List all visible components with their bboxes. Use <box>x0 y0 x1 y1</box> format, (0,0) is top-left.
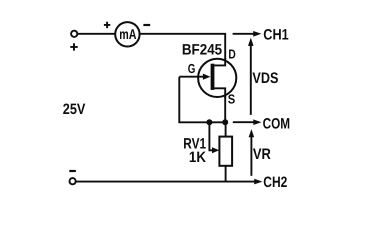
svg-text:VR: VR <box>253 146 271 163</box>
measurement arrow VDS <box>248 38 254 115</box>
potentiometer RV1 body <box>219 137 232 166</box>
svg-text:BF245: BF245 <box>182 42 222 59</box>
wire resistor top lead <box>225 122 227 137</box>
svg-text:CH1: CH1 <box>263 26 288 43</box>
wire gate feedback to COM rail <box>179 77 225 123</box>
wire terminal to ammeter <box>78 33 115 35</box>
junction dot (wiper tap node) <box>206 119 212 125</box>
ammeter M1 <box>115 22 139 46</box>
svg-text:1K: 1K <box>189 149 206 166</box>
svg-text:CH2: CH2 <box>263 174 287 191</box>
wire ammeter to drain (top rail and corner down) <box>140 34 225 64</box>
label + (ammeter polarity) <box>104 22 110 28</box>
svg-text:mA: mA <box>119 27 136 43</box>
svg-text:D: D <box>228 47 235 62</box>
junction dot (source / resistor node) <box>222 119 228 125</box>
svg-text:VDS: VDS <box>252 70 278 87</box>
label - (ammeter polarity) <box>143 24 150 26</box>
transistor Q1 BF245 (N-JFET) <box>179 58 236 98</box>
svg-text:25V: 25V <box>63 101 86 118</box>
svg-text:COM: COM <box>263 115 291 132</box>
terminal TP+ (25V positive) <box>71 31 77 37</box>
wire bottom rail to CH2 arrow <box>76 179 262 185</box>
measurement arrow VR <box>249 129 255 176</box>
terminal TP- (25V negative) <box>70 178 76 184</box>
wire COM arrow <box>233 119 262 125</box>
label - (negative terminal) <box>69 170 76 172</box>
wire resistor bottom lead <box>225 166 227 182</box>
svg-text:G: G <box>188 61 196 76</box>
wiper arm of RV1 <box>209 122 219 153</box>
wire CH1 arrow <box>233 31 262 37</box>
svg-text:S: S <box>228 92 236 107</box>
wire source to COM node <box>224 95 226 122</box>
label + (positive terminal) <box>70 43 77 50</box>
